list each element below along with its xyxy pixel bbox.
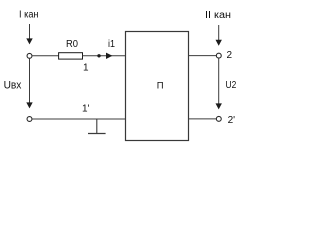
node 2 terminal xyxy=(216,53,221,58)
resistor R0 xyxy=(59,53,83,59)
svg-text:R0: R0 xyxy=(66,39,78,50)
voltage arrow U2 xyxy=(216,59,222,110)
wire node 1' to box П xyxy=(32,118,125,120)
current arrow i1 xyxy=(106,53,112,59)
current arrow I кан xyxy=(26,24,32,44)
svg-text:2: 2 xyxy=(227,50,233,61)
svg-text:П: П xyxy=(157,81,164,92)
ground xyxy=(88,119,106,134)
svg-text:U2: U2 xyxy=(226,79,237,91)
svg-text:i1: i1 xyxy=(108,39,115,50)
voltage arrow Uвх xyxy=(26,58,32,108)
svg-text:2': 2' xyxy=(228,115,236,126)
junction dot xyxy=(97,54,100,57)
converter box П xyxy=(126,32,189,141)
svg-text:II кан: II кан xyxy=(205,10,231,21)
wire box П to node 2 xyxy=(189,55,217,57)
node 1' terminal xyxy=(27,117,32,122)
svg-text:Uвх: Uвх xyxy=(4,79,22,91)
current arrow II кан xyxy=(216,25,222,46)
wire R0 to box П xyxy=(83,55,126,57)
node 2' terminal xyxy=(216,116,221,121)
svg-text:I кан: I кан xyxy=(19,10,39,21)
svg-text:1: 1 xyxy=(83,63,89,74)
node 1 terminal xyxy=(27,53,32,58)
svg-text:1': 1' xyxy=(82,103,90,114)
wire box П to node 2' xyxy=(189,118,217,120)
wire node1 to R0 xyxy=(32,55,58,57)
